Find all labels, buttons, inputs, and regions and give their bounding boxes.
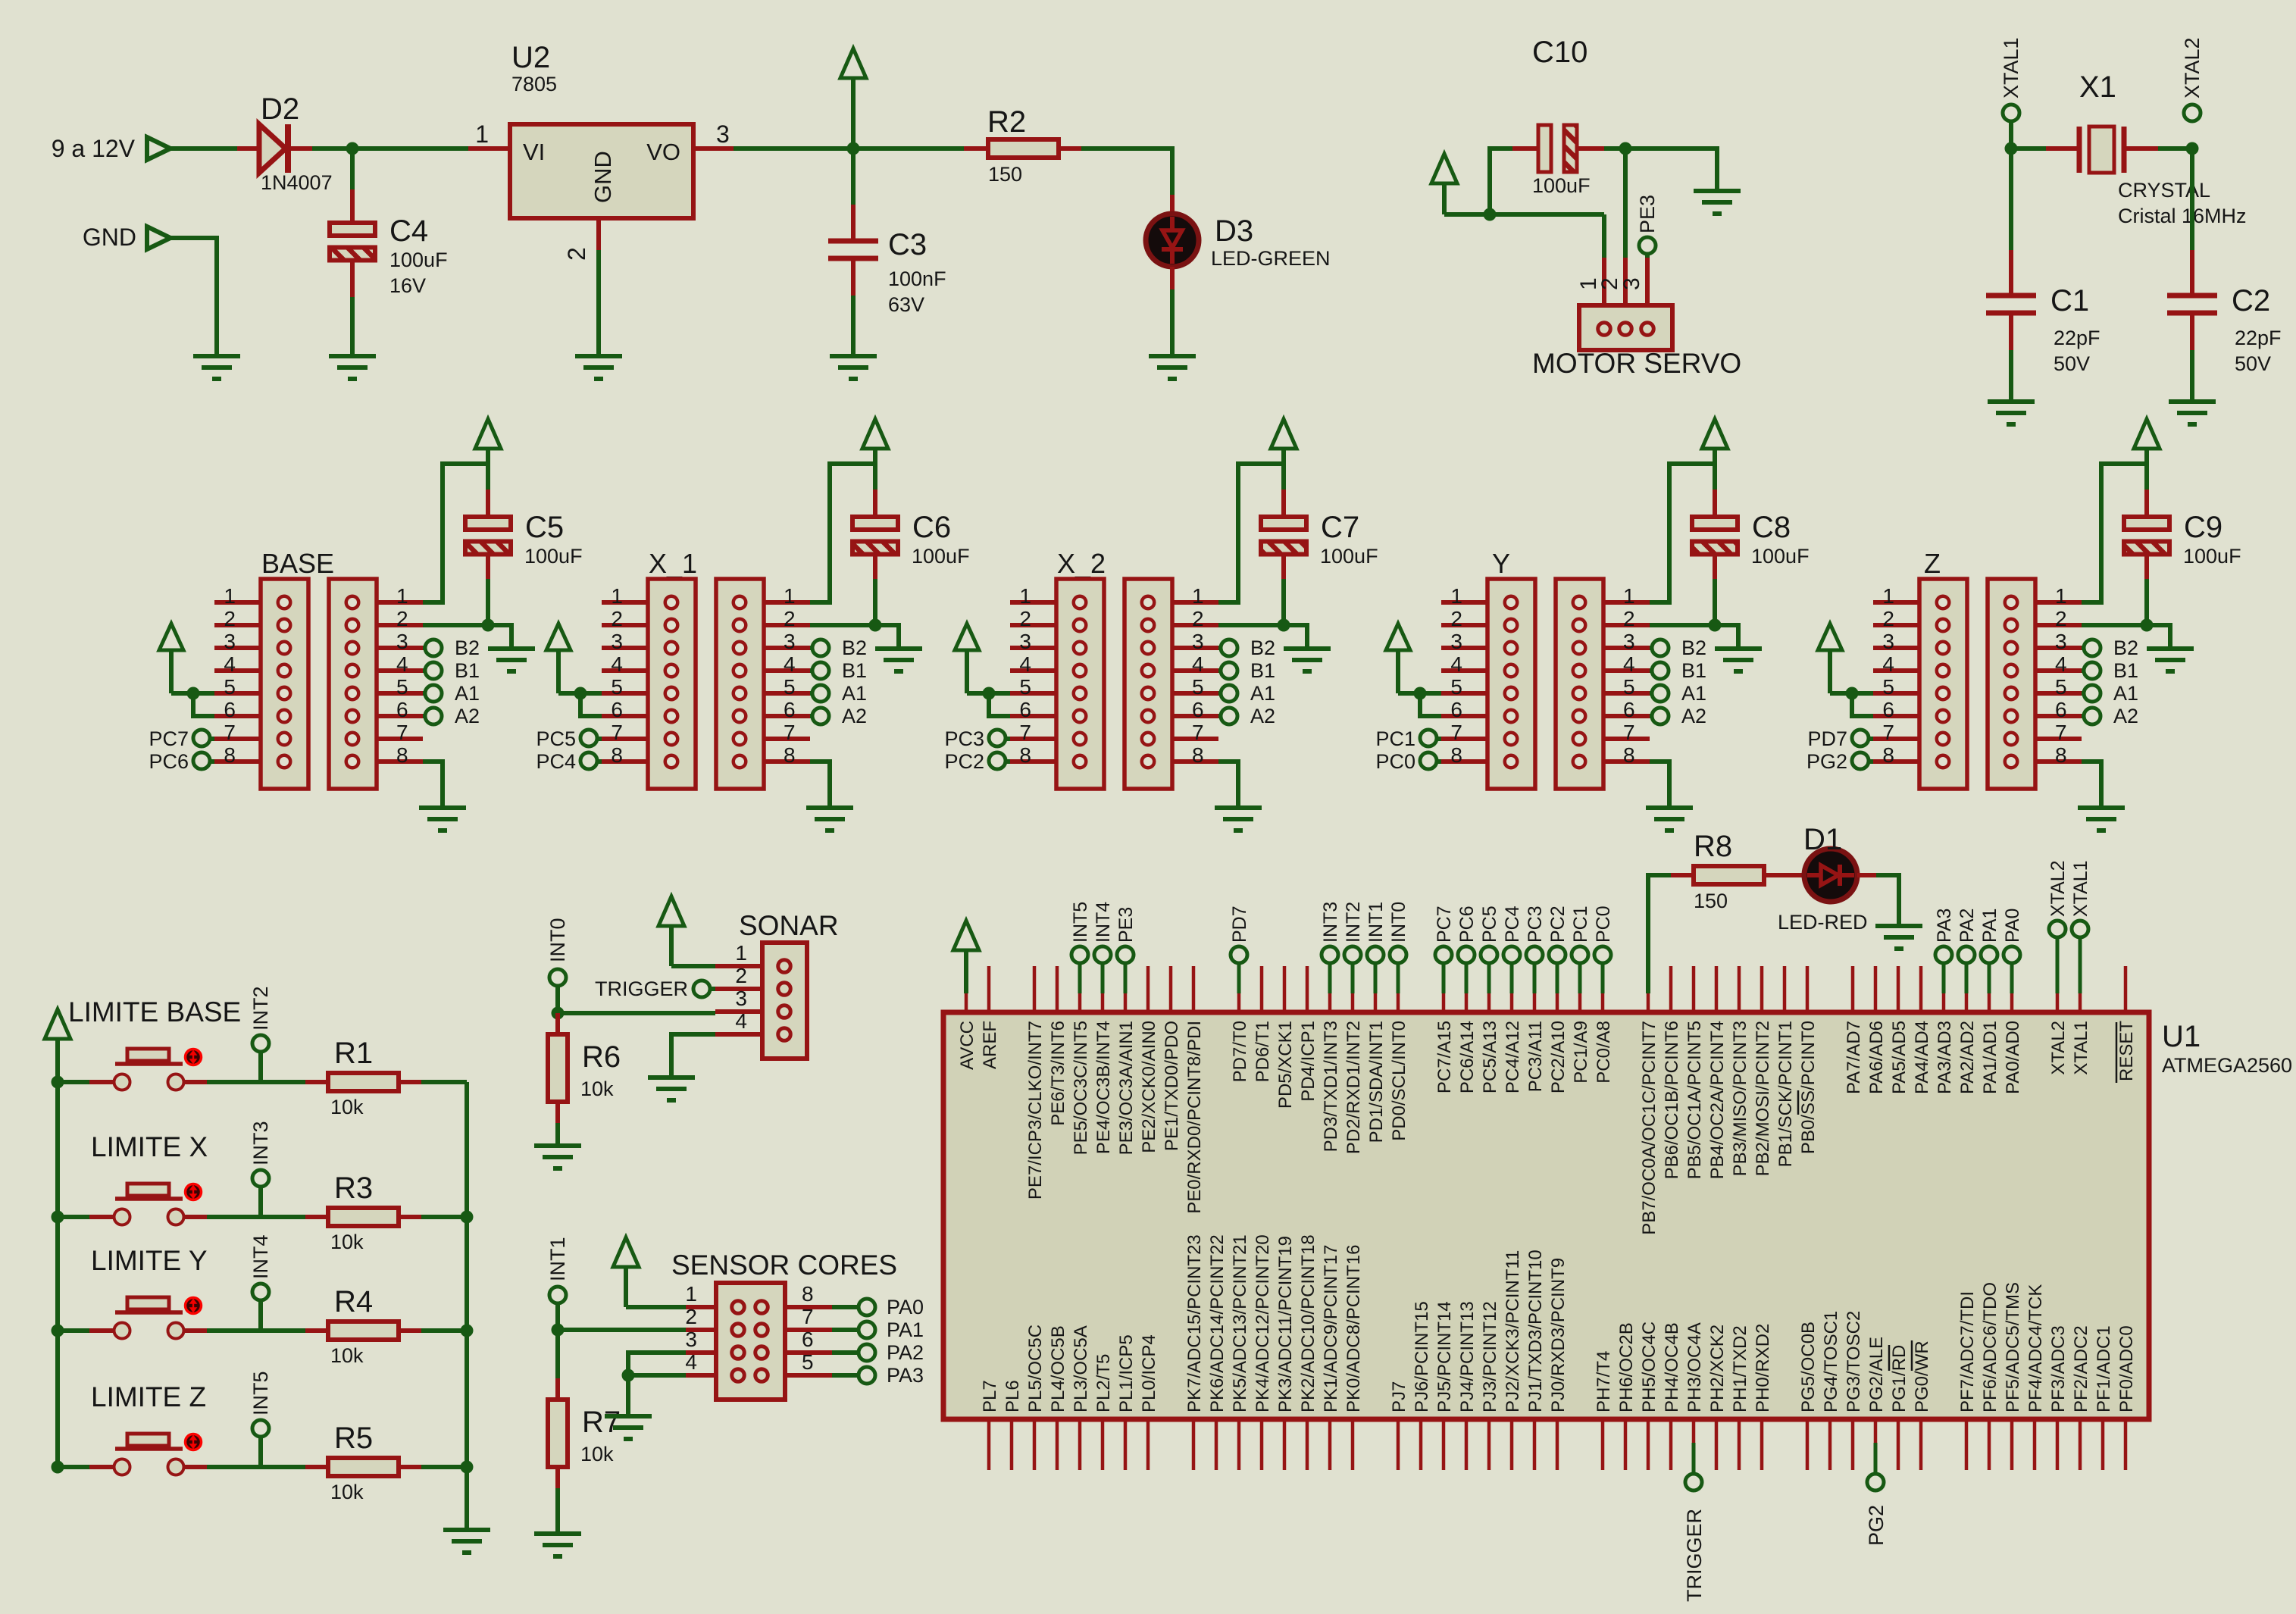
wire INT4 to U1 [1101,963,1105,993]
svg-text:C5: C5 [525,511,564,544]
svg-text:PA7/AD7: PA7/AD7 [1844,1021,1864,1094]
svg-text:PE5/OC3C/INT5: PE5/OC3C/INT5 [1071,1021,1091,1155]
node X_1 A1 [812,685,829,702]
svg-text:C4: C4 [389,214,428,248]
connector Z left pin numbers [1882,584,1894,767]
svg-text:PB7/OC0A/OC1C/PCINT7: PB7/OC0A/OC1C/PCINT7 [1639,1021,1659,1235]
svg-text:PL1/ICP5: PL1/ICP5 [1116,1334,1137,1412]
svg-text:A1: A1 [2113,682,2138,705]
connector BASE right pin circles [346,596,359,768]
svg-text:PF4/ADC4/TCK: PF4/ADC4/TCK [2025,1284,2046,1412]
power +5V at C3 [840,48,866,149]
svg-text:PJ5/PCINT14: PJ5/PCINT14 [1434,1301,1455,1412]
svg-text:INT4: INT4 [249,1234,272,1279]
svg-text:50V: 50V [2235,352,2271,375]
svg-text:PK0/ADC8/PCINT16: PK0/ADC8/PCINT16 [1344,1245,1364,1412]
svg-text:B2: B2 [842,637,867,659]
svg-text:8: 8 [784,743,796,767]
pin stub R6 top [555,1013,560,1034]
node PC1 [1420,730,1437,746]
wire X_1 A2 [810,714,812,718]
svg-text:7805: 7805 [511,73,557,95]
wire TRIGGER at U1 [1692,1443,1696,1474]
svg-text:INT2: INT2 [1343,902,1364,943]
svg-text:SONAR: SONAR [739,910,839,941]
svg-text:R1: R1 [334,1037,373,1070]
wire INT3 drop [258,1187,263,1217]
junction INT0 [552,1007,565,1020]
svg-text:1N4007: 1N4007 [261,171,333,194]
svg-text:PJ1/TXD3/PCINT10: PJ1/TXD3/PCINT10 [1525,1250,1546,1412]
svg-text:7: 7 [224,721,236,744]
node PD7 [1852,730,1869,746]
svg-text:PF5/ADC5/TMS: PF5/ADC5/TMS [2003,1282,2023,1412]
wire R5 to right bus [421,1465,467,1469]
wire Y pin5 [1398,691,1441,696]
svg-text:SENSOR CORES: SENSOR CORES [671,1250,897,1281]
node PC6 [193,752,210,769]
pin stub SERVO.2 [1623,258,1628,311]
wire Z B2 [2082,646,2084,650]
svg-text:PC5: PC5 [536,727,576,750]
pin stub SERVO.3 [1645,258,1650,311]
wire Z A1 [2082,691,2084,696]
node BASE B1 [425,662,442,679]
wire XTAL2 to U1 [2056,937,2060,993]
svg-text:B2: B2 [1250,637,1275,659]
wire to C1 [2009,149,2013,250]
svg-text:6: 6 [611,698,623,721]
svg-text:2: 2 [611,607,623,630]
switch LIMITE BASE actuator [186,1049,202,1065]
svg-text:XTAL1: XTAL1 [2071,1021,2091,1075]
wire PC7 to U1 [1442,963,1446,993]
node X_1 A2 [812,708,829,724]
wire XTAL1 to U1 [2079,937,2082,993]
wire [1604,146,1625,151]
node INT0 at U1 [1390,946,1406,963]
node PD7 at U1 [1231,946,1247,963]
power +5V sonar [658,896,684,966]
svg-text:6: 6 [224,698,236,721]
capacitor C4 [330,223,375,261]
wire to SONAR pin1 [671,964,715,968]
wire to switch LIMITE X [58,1215,89,1219]
wire C2 to ground [2190,350,2194,402]
wire INT4 drop [258,1300,263,1331]
svg-text:PA6/AD6: PA6/AD6 [1866,1021,1887,1094]
svg-text:C6: C6 [912,511,951,544]
svg-text:4: 4 [685,1350,697,1374]
svg-text:6: 6 [784,698,796,721]
resistor R6 10k [548,1034,568,1102]
node BASE A1 [425,685,442,702]
svg-text:LIMITE Z: LIMITE Z [91,1381,206,1412]
wire R6 to ground [555,1123,560,1146]
node PC0 [1420,752,1437,769]
connector X_2 left body [1056,579,1104,789]
node Y B2 [1652,640,1669,656]
connector SENSOR CORES body [716,1283,785,1400]
junction right bus R5 [461,1461,474,1474]
ground C3 [830,356,877,379]
svg-text:PC6: PC6 [1456,906,1478,943]
svg-text:PL6: PL6 [1003,1380,1023,1412]
wire PC3 [1006,737,1010,741]
wire Z pin1 riser [2082,464,2147,602]
wire INT1 to R7 [555,1330,560,1378]
capacitor C10 [1512,125,1604,172]
svg-text:ATMEGA2560: ATMEGA2560 [2162,1054,2292,1077]
svg-text:PC2/A10: PC2/A10 [1548,1021,1569,1093]
wire X_1 pin2 [810,623,875,627]
svg-text:D1: D1 [1803,823,1842,856]
svg-text:8: 8 [1882,743,1894,767]
wire BASE pin2 [423,623,488,627]
SENSOR left pin stubs [686,1307,716,1375]
svg-text:4: 4 [1450,652,1462,676]
resistor R1 10k [328,1073,399,1091]
ground X_1 pin8 [806,808,853,830]
wire PC1 [1437,737,1441,741]
svg-text:1: 1 [1019,584,1031,608]
wire PG2 at U1 [1874,1443,1878,1474]
svg-text:3: 3 [716,120,730,148]
svg-text:100uF: 100uF [389,249,448,271]
svg-text:PH1/TXD2: PH1/TXD2 [1730,1325,1750,1412]
svg-text:GND: GND [83,224,136,251]
svg-text:PJ4/PCINT13: PJ4/PCINT13 [1457,1301,1478,1412]
wire Y pin6 [1420,693,1441,716]
svg-text:PK4/ADC12/PCINT20: PK4/ADC12/PCINT20 [1253,1234,1273,1412]
wire C7 bottom [1281,579,1286,625]
ground Z pin8 [2078,808,2125,830]
connector BASE left pin numbers [224,584,236,767]
switch LIMITE X [89,1184,207,1225]
svg-text:1: 1 [685,1282,697,1306]
connector Y right body [1556,579,1603,789]
svg-text:1: 1 [1623,584,1635,608]
svg-text:PF2/ADC2: PF2/ADC2 [2071,1325,2091,1412]
svg-text:1: 1 [784,584,796,608]
wire right bus [465,1082,469,1530]
wire BASE pin5 [171,691,214,696]
svg-text:VI: VI [523,139,545,165]
wire XTAL1 down [2009,121,2013,149]
SONAR pin circles [778,960,791,1041]
svg-text:D3: D3 [1215,214,1253,248]
svg-text:4: 4 [1623,652,1635,676]
svg-text:2: 2 [396,607,408,630]
svg-text:B1: B1 [455,659,480,682]
wire [312,146,352,151]
junction SENSOR pin4 [622,1369,635,1382]
svg-text:5: 5 [1882,675,1894,699]
ground C7 [1284,649,1331,671]
svg-text:100uF: 100uF [1320,545,1378,568]
wire PC2 to U1 [1556,963,1559,993]
svg-text:PE1/TXD0/PDO: PE1/TXD0/PDO [1162,1021,1182,1151]
svg-text:150: 150 [1694,890,1728,912]
svg-text:3: 3 [735,987,747,1010]
svg-text:3: 3 [1019,630,1031,653]
input terminal GND [147,227,170,249]
ground D1 [1875,926,1922,949]
svg-text:R5: R5 [334,1422,373,1455]
wire PG2 [1869,759,1873,764]
svg-text:4: 4 [611,652,623,676]
svg-text:Cristal 16MHz: Cristal 16MHz [2118,205,2247,227]
svg-text:1: 1 [396,584,408,608]
svg-text:B2: B2 [455,637,480,659]
connector X_1 right pin circles [734,596,746,768]
resistor R5 10k [328,1458,399,1476]
capacitor C3 [828,241,878,258]
svg-text:PA2/AD2: PA2/AD2 [1957,1021,1978,1094]
LED D3 green [1146,214,1199,267]
svg-text:R7: R7 [582,1406,621,1439]
svg-text:D2: D2 [261,92,299,126]
pin stub U2.1 [468,146,510,151]
svg-text:PH2/XCK2: PH2/XCK2 [1707,1325,1728,1412]
svg-text:4: 4 [396,652,408,676]
ground R7 [534,1534,581,1556]
switch LIMITE BASE [89,1049,207,1090]
pin stub R8 left [1671,873,1694,877]
junction XTAL1 [2005,142,2018,155]
svg-text:PC6: PC6 [149,750,189,773]
svg-text:3: 3 [1619,277,1644,290]
wire BASE pin8 ground [423,762,443,806]
connector X_1 right pin numbers [784,584,796,767]
power +5V above C7 [1271,419,1297,490]
wire Y pin1 riser [1650,464,1715,602]
wire C9 to ground [2147,625,2170,647]
svg-text:PA0: PA0 [2002,909,2023,943]
wire INT5 drop [258,1437,263,1467]
svg-text:C9: C9 [2184,511,2222,544]
svg-text:1: 1 [1882,584,1894,608]
wire to XTAL2 [2158,146,2192,151]
svg-text:C8: C8 [1752,511,1791,544]
node INT2 at U1 [1344,946,1361,963]
wire X_2 pin5 [967,691,1010,696]
capacitor C8 100uF [1692,517,1738,555]
svg-text:3: 3 [611,630,623,653]
node X_2 B1 [1221,662,1237,679]
MCU U1 ATMEGA2560 body [943,1012,2149,1419]
connector X_1 right pin stubs [764,602,810,762]
junction node VIN [346,142,359,155]
svg-text:PC7: PC7 [1434,906,1455,943]
svg-text:A1: A1 [842,682,867,705]
svg-text:7: 7 [802,1305,814,1328]
svg-text:BASE: BASE [261,548,334,579]
node Y A1 [1652,685,1669,702]
node Z A2 [2084,708,2100,724]
svg-text:PD0/SCL/INT0: PD0/SCL/INT0 [1389,1021,1409,1141]
node X_2 A1 [1221,685,1237,702]
wire C10 left [1490,149,1512,214]
svg-text:8: 8 [611,743,623,767]
wire X_2 pin1 riser [1218,464,1284,602]
svg-text:GND: GND [590,151,616,203]
pin stub C1 bottom [2009,313,2013,350]
svg-text:PA2: PA2 [887,1341,924,1364]
wire PC7 [210,737,214,741]
svg-text:PC2: PC2 [1547,906,1569,943]
connector Z right pin circles [2005,596,2018,768]
svg-text:5: 5 [784,675,796,699]
junction C7 [1278,619,1290,632]
wire SENSOR to ground [626,1375,630,1415]
wire C9 bottom [2144,579,2149,625]
connector Y left pin circles [1505,596,1518,768]
svg-text:TRIGGER: TRIGGER [595,977,688,1000]
wire X_2 pin6 [989,693,1010,716]
wire C5 to ground [488,625,511,647]
node PA0 [859,1299,875,1315]
svg-text:7: 7 [1623,721,1635,744]
svg-text:XTAL2: XTAL2 [2047,860,2069,917]
node INT1 at U1 [1367,946,1384,963]
svg-text:PC5/A13: PC5/A13 [1480,1021,1500,1093]
svg-text:PA1: PA1 [1979,909,2000,943]
ground R6 [534,1146,581,1168]
wire PC0 [1437,759,1441,764]
svg-text:5: 5 [2055,675,2067,699]
node PA2 [859,1344,875,1361]
svg-text:6: 6 [802,1328,814,1351]
svg-text:PD3/TXD1/INT3: PD3/TXD1/INT3 [1321,1021,1341,1152]
svg-text:PC3/A11: PC3/A11 [1525,1021,1546,1092]
connector Z right pin stubs [2035,602,2082,762]
pin stub C3 bottom [851,258,856,296]
connector BASE right pin numbers [396,584,408,767]
svg-text:R4: R4 [334,1285,373,1318]
ground C4 [329,356,376,379]
svg-text:PL2/T5: PL2/T5 [1093,1354,1114,1412]
svg-text:7: 7 [1882,721,1894,744]
wire C10 to ground [1625,149,1717,191]
svg-text:PA0: PA0 [887,1296,924,1318]
wire Z A2 [2082,714,2084,718]
svg-text:3: 3 [1450,630,1462,653]
wire R2 to D3 [1081,149,1172,195]
connector X_1 right body [716,579,764,789]
wire INT0 to U1 [1397,963,1400,993]
node XTAL2 at U1 [2049,921,2066,937]
pin stub C1 top [2009,250,2013,296]
switch LIMITE Z actuator [186,1434,202,1450]
pin stub R2 right [1059,146,1081,151]
connector Z left pin circles [1937,596,1950,768]
svg-text:R3: R3 [334,1171,373,1205]
svg-text:7: 7 [611,721,623,744]
connector X_2 right pin stubs [1172,602,1218,762]
svg-text:100uF: 100uF [524,545,583,568]
SENSOR pin circles [732,1301,768,1382]
svg-text:7: 7 [2055,721,2067,744]
wire PA2 to U1 [1965,963,1969,993]
wire Y pin8 ground [1650,762,1669,806]
wire PD7 [1869,737,1873,741]
svg-text:PC4: PC4 [536,750,576,773]
svg-text:1: 1 [1450,584,1462,608]
wire PC6 [210,759,214,764]
connector X_2 left pin numbers [1019,584,1031,767]
SONAR pin stubs [715,966,762,1034]
node PC4 [580,752,597,769]
svg-text:PE3/OC3A/AIN1: PE3/OC3A/AIN1 [1116,1021,1137,1155]
svg-text:100nF: 100nF [888,267,946,290]
svg-text:2: 2 [1882,607,1894,630]
wire PA1 to U1 [1988,963,1991,993]
wire to switch LIMITE Y [58,1328,89,1333]
wire X_1 A1 [810,691,812,696]
svg-text:PC6/A14: PC6/A14 [1457,1021,1478,1093]
svg-text:PK2/ADC10/PCINT18: PK2/ADC10/PCINT18 [1298,1234,1318,1412]
svg-text:50V: 50V [2054,352,2090,375]
svg-text:PD5/XCK1: PD5/XCK1 [1275,1021,1296,1109]
node INT5 [252,1420,269,1437]
connector Z right body [1988,579,2035,789]
wire [851,296,856,356]
wire R4 to right bus [421,1328,467,1333]
power +5V BASE left [159,624,183,693]
node XTAL1 at U1 [2072,921,2088,937]
connector Z left body [1919,579,1967,789]
connector X_2 right pin circles [1142,596,1155,768]
wire X_2 pin2 [1218,623,1284,627]
svg-text:3: 3 [1882,630,1894,653]
wire INT5 to U1 [1078,963,1082,993]
regulator U2 7805 body [510,124,693,218]
svg-text:U2: U2 [511,41,550,74]
wire D1 to ground [1876,875,1899,926]
pin stub D3 top [1170,195,1175,214]
svg-text:PJ0/RXD3/PCINT9: PJ0/RXD3/PCINT9 [1548,1258,1569,1412]
node INT4 at U1 [1094,946,1111,963]
svg-text:PA3: PA3 [887,1364,924,1387]
wire [352,146,468,151]
svg-text:PL3/OC5A: PL3/OC5A [1071,1325,1091,1412]
node INT1 [549,1287,566,1303]
connector BASE left pin stubs [214,602,261,762]
pin stub C4 bottom [350,261,355,297]
svg-text:PJ6/PCINT15: PJ6/PCINT15 [1412,1301,1432,1412]
pin stub C3 top [851,205,856,241]
wire PC3 to U1 [1533,963,1537,993]
svg-text:AVCC: AVCC [957,1021,978,1070]
svg-text:CRYSTAL: CRYSTAL [2118,179,2210,202]
wire INT1 drop [555,1303,560,1330]
pin stub R3 left [305,1215,328,1219]
svg-text:PB5/OC1A/PCINT5: PB5/OC1A/PCINT5 [1684,1021,1705,1179]
wire SENSOR pin3 [628,1353,686,1375]
wire PA3 to U1 [1942,963,1946,993]
ground C8 [1715,649,1762,671]
svg-text:A2: A2 [2113,705,2138,727]
wire C8 to ground [1715,625,1738,647]
wire X_2 B2 [1218,646,1221,650]
pin stub C2 bottom [2190,313,2194,350]
U1 bottom pin stubs [989,1419,2126,1470]
wire PC6 to U1 [1465,963,1469,993]
node PE3 servo [1639,237,1656,254]
svg-text:INT4: INT4 [1093,902,1114,943]
SENSOR pin numbers [685,1282,813,1374]
